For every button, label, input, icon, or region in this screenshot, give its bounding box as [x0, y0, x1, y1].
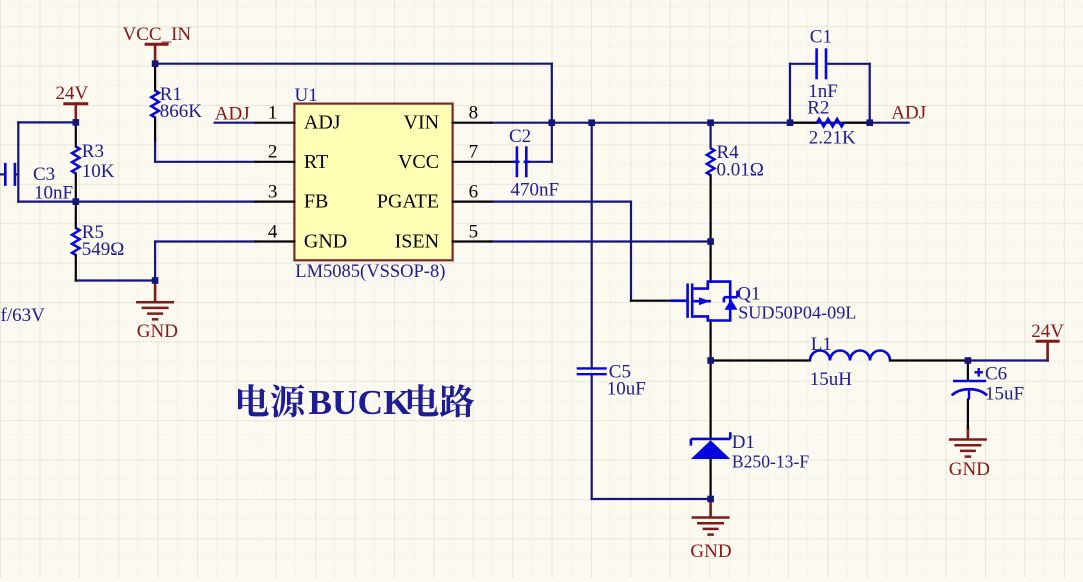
R1 value 866K	[160, 101, 203, 122]
C3 designator	[33, 164, 55, 185]
clipped label f/63V	[1, 305, 46, 326]
svg-text:VCC_IN: VCC_IN	[123, 24, 192, 45]
svg-text:2: 2	[268, 142, 278, 163]
junction ISEN node	[707, 238, 714, 245]
svg-text:GND: GND	[949, 459, 990, 480]
wire C1 top left	[790, 63, 815, 65]
svg-text:549Ω: 549Ω	[82, 239, 125, 260]
wire C1 right riser	[869, 64, 871, 123]
junction SW node	[707, 357, 714, 364]
svg-text:15uH: 15uH	[810, 369, 853, 390]
C1 designator	[810, 27, 832, 48]
C6 value 15uF	[985, 384, 1024, 405]
svg-text:Q1: Q1	[737, 284, 760, 305]
wire C3 branch bottom	[18, 201, 76, 203]
wire PGATE horizontal	[491, 201, 631, 203]
wire PGATE drop	[630, 202, 632, 301]
wire C3 left stub	[0, 173, 4, 175]
power port 24V left bar	[63, 104, 88, 123]
net label VCC_IN	[123, 24, 192, 45]
C6 plus sign	[974, 368, 983, 377]
wire FB net	[76, 201, 256, 203]
svg-text:24V: 24V	[1031, 321, 1064, 342]
wire R1 to RT vertical	[154, 140, 156, 162]
C1 value 1nF	[808, 81, 838, 102]
wire C5 riser upper	[591, 123, 593, 368]
diode D1 cathode lead	[709, 361, 711, 439]
transistor Q1 P-MOSFET	[672, 242, 738, 361]
wire C3 branch vertical	[17, 122, 19, 201]
wire main VIN bus	[491, 122, 908, 124]
svg-text:VCC: VCC	[398, 151, 439, 173]
pin 8 VIN	[404, 103, 492, 134]
pin 3 FB	[256, 181, 329, 212]
resistor R1	[151, 64, 159, 141]
label GND right	[949, 459, 990, 480]
junction VCC_IN / R1	[152, 60, 159, 67]
net label 24V left	[56, 83, 89, 104]
svg-text:SUD50P04-09L: SUD50P04-09L	[738, 303, 856, 323]
svg-text:6: 6	[469, 181, 479, 202]
wire C5 riser lower	[591, 375, 593, 499]
D1 designator	[732, 432, 755, 453]
wire bottom run to D1 node	[592, 498, 711, 500]
resistor R4	[707, 123, 715, 242]
capacitor C3	[5, 163, 15, 186]
svg-text:GND: GND	[137, 321, 178, 342]
C3 value 10nF	[34, 182, 73, 203]
C5 value 10uF	[607, 379, 646, 400]
R5 value 549	[82, 239, 125, 260]
svg-text:10nF: 10nF	[34, 182, 73, 203]
capacitor C6 polarized	[952, 361, 987, 428]
capacitor C5	[577, 368, 607, 374]
junction GND node left	[152, 277, 159, 284]
net label ADJ right	[891, 102, 926, 123]
wire VIN riser	[551, 64, 553, 162]
power port VCC_IN bar	[145, 44, 169, 63]
wire SW to 24V	[968, 359, 1048, 361]
pin 1 ADJ	[256, 103, 341, 134]
R4 value 0.01	[717, 160, 764, 181]
svg-text:GND: GND	[304, 231, 347, 253]
title text 电源BUCK电路	[238, 382, 474, 422]
wire R5 bottom horizontal	[76, 279, 155, 281]
pin 6 PGATE	[377, 181, 492, 212]
svg-text:PGATE: PGATE	[377, 191, 439, 213]
junction 24V / R3 / C3	[73, 119, 80, 126]
wire C1 top right	[827, 63, 869, 65]
C6 designator	[985, 364, 1007, 385]
R2 value 2.21K	[809, 128, 856, 149]
C2 value 470nF	[511, 180, 560, 201]
R4 designator	[717, 142, 740, 163]
svg-text:1: 1	[268, 103, 278, 124]
power port 24V right bar	[1036, 341, 1060, 360]
svg-text:2.21K: 2.21K	[809, 128, 856, 149]
junction R2 C1 right	[866, 119, 873, 126]
svg-text:ISEN: ISEN	[395, 231, 439, 253]
resistor R2	[790, 119, 870, 127]
svg-text:0.01Ω: 0.01Ω	[717, 160, 764, 181]
svg-text:1nF: 1nF	[808, 81, 838, 102]
svg-text:470nF: 470nF	[511, 180, 560, 201]
Q1 value SUD50P04-09L	[738, 303, 856, 323]
L1 value 15uH	[810, 369, 853, 390]
svg-text:ADJ: ADJ	[304, 112, 341, 134]
wire GND node riser	[154, 242, 156, 281]
svg-text:f/63V: f/63V	[1, 305, 46, 326]
op-amp U1 LM5085 body	[294, 104, 452, 261]
resistor R3	[72, 122, 80, 201]
junction R2 C1 left	[787, 119, 794, 126]
svg-text:RT: RT	[304, 151, 328, 173]
svg-text:3: 3	[268, 181, 278, 202]
wire riser to C2	[529, 161, 552, 163]
svg-text:4: 4	[268, 221, 278, 242]
junction C5 riser	[588, 119, 595, 126]
svg-text:C1: C1	[810, 27, 832, 48]
pin 7 VCC	[398, 142, 491, 173]
wire C1 left riser	[789, 64, 791, 123]
svg-text:24V: 24V	[56, 83, 89, 104]
wire VCC_IN top bus	[155, 63, 552, 65]
svg-text:8: 8	[469, 103, 479, 124]
wire 24V node top	[18, 121, 76, 123]
svg-text:15uF: 15uF	[985, 384, 1024, 405]
wire to GND pin	[155, 240, 256, 242]
R1 designator	[160, 84, 182, 105]
U1 designator	[295, 85, 318, 106]
wire ISEN net	[491, 240, 710, 242]
svg-text:R3: R3	[82, 141, 104, 162]
svg-text:D1: D1	[732, 432, 755, 453]
label GND bottom	[690, 541, 731, 562]
svg-text:C6: C6	[985, 364, 1007, 385]
junction VIN riser	[549, 119, 556, 126]
svg-text:LM5085(VSSOP-8): LM5085(VSSOP-8)	[295, 262, 445, 282]
junction R4 top	[707, 119, 714, 126]
svg-text:U1: U1	[295, 85, 318, 106]
svg-text:7: 7	[469, 142, 479, 163]
svg-text:ADJ: ADJ	[891, 102, 926, 123]
capacitor C2	[513, 146, 530, 177]
D1 value B250-13-F	[732, 451, 809, 471]
R5 designator	[82, 222, 104, 243]
resistor R5	[72, 202, 80, 281]
svg-text:ADJ: ADJ	[215, 104, 250, 125]
wire R1 to RT horizontal	[155, 161, 256, 163]
ground symbol bottom	[692, 499, 730, 535]
svg-text:VIN: VIN	[404, 112, 440, 134]
junction FB node	[73, 198, 80, 205]
junction output node	[965, 357, 972, 364]
svg-text:5: 5	[469, 221, 479, 242]
label GND left	[137, 321, 178, 342]
diode D1 symbol	[691, 432, 730, 499]
svg-text:FB: FB	[304, 191, 328, 213]
wire gate run black	[631, 300, 672, 302]
R3 designator	[82, 141, 104, 162]
wire pin7 to C2	[491, 161, 514, 163]
svg-text:10uF: 10uF	[607, 379, 646, 400]
svg-text:L1: L1	[811, 334, 832, 355]
R2 designator	[807, 98, 829, 119]
svg-text:GND: GND	[690, 541, 731, 562]
wire ADJ stub left	[215, 122, 256, 124]
pin 2 RT	[256, 142, 329, 173]
C5 designator	[609, 362, 631, 383]
ground symbol right	[949, 428, 987, 457]
svg-text:10K: 10K	[82, 161, 115, 182]
capacitor C1	[817, 48, 826, 79]
C2 designator	[509, 126, 531, 147]
R3 value 10K	[82, 161, 115, 182]
ground symbol left	[136, 281, 174, 320]
Q1 designator	[737, 284, 760, 305]
net label 24V right	[1031, 321, 1064, 342]
junction D1 anode node	[707, 496, 714, 503]
U1 value LM5085(VSSOP-8)	[295, 262, 445, 282]
wire C3 right stub	[16, 173, 18, 175]
pin 4 GND	[256, 221, 348, 252]
svg-text:BUCK: BUCK	[308, 382, 411, 422]
L1 designator	[811, 334, 832, 355]
svg-text:C2: C2	[509, 126, 531, 147]
svg-text:B250-13-F: B250-13-F	[732, 451, 809, 471]
inductor L1	[711, 351, 968, 361]
net label ADJ left	[215, 104, 250, 125]
pin 5 ISEN	[395, 221, 492, 252]
svg-text:866K: 866K	[160, 101, 203, 122]
